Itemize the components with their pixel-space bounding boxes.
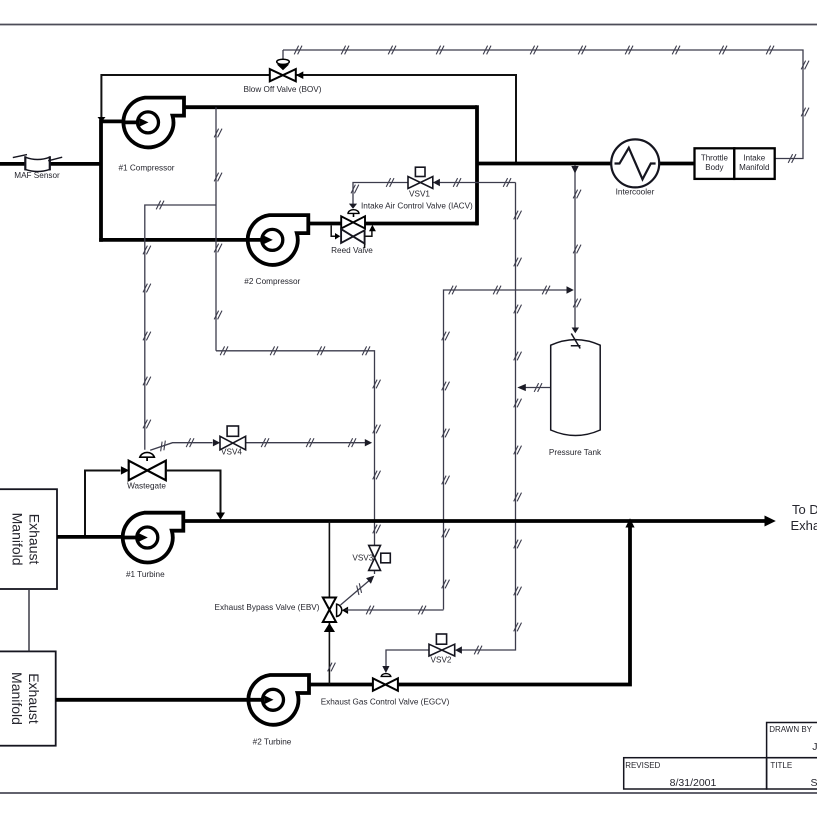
valve BOV (Blow Off Valve) xyxy=(270,59,304,81)
svg-text:To Downpipe &: To Downpipe & xyxy=(792,502,817,517)
wire: IACV pilot line to VSV1 and signal trunk xyxy=(353,183,408,209)
svg-text:VSV2: VSV2 xyxy=(431,656,452,665)
wire: #1 compressor outlet pipe xyxy=(184,105,477,109)
valve EGCV (Exhaust Gas Control Valve) xyxy=(373,674,398,691)
solenoid valve VSV1 xyxy=(408,167,440,188)
svg-text:#2 Turbine: #2 Turbine xyxy=(253,738,292,747)
wire: IACV to charge header xyxy=(366,222,479,226)
svg-text:Blow Off Valve (BOV): Blow Off Valve (BOV) xyxy=(244,85,322,94)
svg-text:#1 Turbine: #1 Turbine xyxy=(126,570,165,579)
compressor U1 (#1 Compressor) xyxy=(123,98,185,148)
title block: revised box xyxy=(624,758,767,789)
wire: EBV bypass branch xyxy=(328,521,330,598)
arrow down on IACV stem xyxy=(349,204,357,209)
wire: #2 compressor inlet xyxy=(99,238,264,242)
svg-text:Intake Air Control Valve (IACV: Intake Air Control Valve (IACV) xyxy=(361,202,473,211)
slash marks on vacuum/signal lines xyxy=(143,46,809,672)
svg-text:REVISED: REVISED xyxy=(625,761,660,770)
svg-text:8/31/2001: 8/31/2001 xyxy=(670,777,717,789)
wire: #1 turbine inlet xyxy=(57,535,139,539)
svg-text:Exhaust: Exhaust xyxy=(27,514,43,565)
svg-text:Exhaust: Exhaust xyxy=(26,673,42,724)
wire: tank to signal trunk xyxy=(521,387,551,389)
title block: drawn-by box xyxy=(767,723,817,758)
svg-text:TITLE: TITLE xyxy=(770,761,792,770)
wire: BOV recirculation line xyxy=(101,75,516,164)
svg-text:Intake: Intake xyxy=(743,153,765,162)
svg-text:Body: Body xyxy=(705,163,723,172)
svg-text:Pressure Tank: Pressure Tank xyxy=(549,448,602,457)
compressor U2 (#2 Compressor) xyxy=(247,215,309,265)
svg-text:Manifold: Manifold xyxy=(739,163,769,172)
check valve at tank inlet xyxy=(571,334,581,349)
svg-text:VSV3: VSV3 xyxy=(352,553,373,562)
svg-text:Reed Valve: Reed Valve xyxy=(331,246,373,255)
wire: boost reference from compressor outlet down to wastegate xyxy=(215,107,217,351)
svg-text:DRAWN BY: DRAWN BY xyxy=(769,725,812,734)
intercooler xyxy=(611,139,659,187)
exhaust manifold box 1 xyxy=(0,489,57,589)
svg-text:#2 Compressor: #2 Compressor xyxy=(244,277,300,286)
wire: intake junction left header xyxy=(99,120,103,242)
wire: EBV actuator to VSV3 diagonal xyxy=(341,579,372,605)
throttle body box xyxy=(695,148,735,179)
solenoid valve VSV3 xyxy=(369,545,391,570)
wire: #1 compressor inlet xyxy=(101,120,140,124)
arrow into compressor inlet from BOV line xyxy=(98,117,106,122)
pressure tank xyxy=(551,334,601,436)
wire: vacuum signal line from BOV actuator to intake manifold (top) xyxy=(283,50,803,159)
svg-text:Exhaust: Exhaust xyxy=(791,518,817,533)
wire: pressure tank feed from charge pipe xyxy=(574,166,576,331)
wire: EBV pilot line xyxy=(346,609,444,611)
wire: EGCV outlet riser to main exhaust xyxy=(398,527,630,685)
wire: intercooler to throttle body xyxy=(659,162,695,166)
wire: MAF sensor inlet pipe xyxy=(0,162,101,166)
svg-text:Intercooler: Intercooler xyxy=(616,188,655,197)
svg-text:Wastegate: Wastegate xyxy=(127,482,166,491)
svg-text:Jon: Jon xyxy=(812,741,817,753)
frame top border xyxy=(0,24,817,26)
svg-text:VSV1: VSV1 xyxy=(409,189,430,198)
title block: title box xyxy=(767,758,817,789)
wire: signal trunk (vacuum reservoir line) xyxy=(460,183,516,651)
svg-text:Manifold: Manifold xyxy=(10,513,26,566)
intake manifold box xyxy=(734,148,774,179)
valve wastegate with diaphragm actuator xyxy=(121,452,166,480)
frame bottom border xyxy=(0,792,817,794)
reed valve (bowtie with bypass loop) xyxy=(331,225,376,248)
svg-text:#1 Compressor: #1 Compressor xyxy=(119,164,175,173)
svg-text:Exhaust Bypass Valve (EBV): Exhaust Bypass Valve (EBV) xyxy=(215,603,320,612)
wire: #2 turbine inlet xyxy=(56,698,265,702)
svg-text:VSV4: VSV4 xyxy=(221,448,242,457)
wire: EGCV pilot to VSV2 xyxy=(386,650,429,669)
solenoid valve VSV2 xyxy=(429,634,462,656)
svg-text:Throttle: Throttle xyxy=(701,153,729,162)
exhaust manifold box 2 xyxy=(0,651,56,745)
wire: charge header right side xyxy=(475,105,479,225)
wire: charge pipe to intercooler xyxy=(477,162,612,166)
valve IACV (Intake Air Control Valve) xyxy=(341,210,365,229)
svg-text:Manifold: Manifold xyxy=(9,672,25,725)
wire: wastegate actuator link to VSV4 xyxy=(150,443,212,451)
turbine T2 (#2 Turbine) xyxy=(248,675,310,725)
turbine T1 (#1 Turbine) xyxy=(122,513,184,563)
wire: #2 compressor outlet to reed/IACV xyxy=(309,222,342,226)
wire: wastegate bypass loop xyxy=(85,471,121,537)
wire: EBV pilot to tank feed junction xyxy=(444,290,571,610)
wire: VSV3 stem to exhaust pipe xyxy=(374,521,376,545)
svg-text:Exhaust Gas Control Valve (EGC: Exhaust Gas Control Valve (EGCV) xyxy=(321,698,450,707)
svg-text:Supra Twin Turbo: Supra Twin Turbo xyxy=(811,777,817,789)
valve EBV (Exhaust Bypass Valve) xyxy=(323,598,348,623)
solenoid valve VSV4 xyxy=(220,426,246,450)
wire: #2 turbine outlet xyxy=(309,683,373,687)
wire: BOV actuator stem xyxy=(282,50,284,60)
MAF sensor xyxy=(13,155,62,172)
wire: link between exhaust manifolds xyxy=(28,589,30,651)
svg-text:MAF Sensor: MAF Sensor xyxy=(14,171,60,180)
wire: main exhaust line to downpipe xyxy=(183,519,766,523)
